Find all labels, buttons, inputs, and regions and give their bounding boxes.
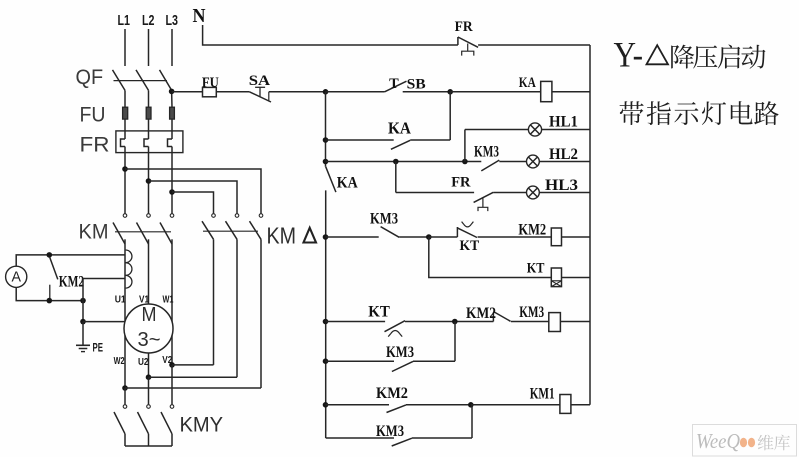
- thermal relay FR heater box: [80, 131, 183, 157]
- wire KT coil branch: [429, 237, 552, 278]
- neutral label N: [193, 5, 206, 27]
- wire rung6 left: [326, 404, 390, 406]
- node HL2 rung: [323, 159, 329, 165]
- wire L2 QF-fuse: [148, 90, 150, 107]
- wire PE drop: [82, 301, 84, 322]
- wire HL3 to rail: [539, 192, 590, 194]
- node CT tap: [80, 298, 86, 304]
- wire KM3 coil to rail: [560, 321, 590, 323]
- svg-text:W1: W1: [163, 294, 174, 306]
- wire KM-delta pole3 drop: [260, 239, 262, 388]
- wire node-KT contact: [429, 236, 458, 238]
- contact KM2 ammeter (NO): [50, 258, 84, 301]
- contactor coil KM2: [518, 222, 561, 246]
- svg-text:HL1: HL1: [549, 114, 578, 131]
- svg-text:KA: KA: [388, 119, 412, 138]
- wire HL1 to rail: [542, 129, 590, 131]
- svg-text:SB: SB: [407, 77, 426, 93]
- wire L2 incoming: [148, 29, 150, 66]
- terminal label V1: [139, 294, 149, 306]
- contact KM3 hold (NO): [386, 344, 414, 372]
- wire KT-KM2coil: [478, 236, 552, 238]
- wire L1 incoming: [124, 29, 126, 66]
- contactor KMY star contacts: [114, 405, 223, 446]
- svg-text:KT: KT: [527, 261, 545, 277]
- svg-text:KM2: KM2: [518, 222, 546, 239]
- right rail: [589, 45, 591, 405]
- left rail upper: [325, 92, 327, 167]
- svg-text:A: A: [12, 270, 22, 286]
- contact KT delayed NC rung4: [457, 222, 479, 254]
- wire L2 FR-KM: [148, 147, 150, 214]
- wire FR-HL3: [493, 192, 526, 194]
- wire KT coil to rail: [562, 277, 591, 279]
- wire rung4 left: [326, 236, 379, 238]
- svg-text:3~: 3~: [138, 329, 161, 351]
- svg-text:KM3: KM3: [376, 423, 404, 440]
- node rung4: [323, 234, 329, 240]
- lamp HL3: [527, 177, 579, 199]
- node V2 delta: [169, 362, 175, 368]
- wire neutral N run: [203, 25, 458, 45]
- contactor coil KM1: [530, 385, 571, 413]
- svg-text:KMY: KMY: [180, 414, 224, 437]
- wire L3 QF-fuse: [171, 90, 173, 107]
- lamp HL1: [528, 114, 578, 137]
- wire HL3 rung left: [396, 192, 474, 194]
- phase label L3: [166, 12, 179, 29]
- wire rung7 left: [326, 437, 394, 439]
- wire L3 FR-KM: [171, 147, 173, 214]
- svg-text:KA: KA: [519, 75, 536, 91]
- svg-text:HL2: HL2: [549, 146, 578, 163]
- svg-text:U2: U2: [138, 356, 149, 368]
- wire U2 to KMY: [148, 377, 150, 404]
- wire motor W2 lead: [124, 335, 126, 388]
- wire L1 FR-KM: [124, 147, 126, 214]
- wire rung7 riser: [471, 405, 473, 438]
- node L1 tap: [122, 166, 128, 172]
- svg-text:U1: U1: [115, 294, 126, 306]
- wire L1 QF-fuse: [124, 90, 126, 107]
- node QF output tap: [169, 89, 175, 95]
- svg-text:V1: V1: [139, 294, 149, 306]
- wire SB-node: [403, 91, 451, 93]
- wire tap to control fuse: [172, 91, 203, 93]
- fuse FU L2 (power): [146, 107, 151, 119]
- fuse FU (control): [202, 75, 219, 97]
- node KM1 rung: [468, 402, 474, 408]
- wire HL3 drop: [395, 162, 397, 193]
- wire KM-delta pole2 drop: [236, 239, 238, 377]
- wire FR to right rail: [478, 44, 590, 46]
- svg-text:W2: W2: [114, 355, 125, 367]
- wire node-KM1 coil: [471, 404, 560, 406]
- wire FU-SA: [216, 91, 249, 93]
- terminal label U2: [138, 356, 149, 368]
- wire delta V2 link: [172, 364, 214, 366]
- ground PE: [76, 341, 103, 355]
- wire KM3-node: [399, 236, 429, 238]
- wire KA hold rung: [326, 139, 394, 141]
- svg-text:L3: L3: [166, 12, 179, 29]
- wire KM-delta pole1 drop: [213, 239, 215, 365]
- wire L3 incoming: [171, 29, 173, 66]
- node W2 delta: [122, 385, 128, 391]
- wire L3 fuse-FR: [171, 119, 173, 139]
- node KM3 hold branch: [452, 319, 458, 325]
- relay coil KA: [519, 75, 552, 102]
- wire SA to left rail: [269, 91, 326, 93]
- node rung5: [323, 319, 329, 325]
- svg-text:FU: FU: [80, 104, 106, 127]
- phase label L2: [142, 12, 155, 29]
- node HL3 branch: [393, 159, 399, 165]
- svg-text:SA: SA: [249, 73, 270, 89]
- wire ammeter top rail: [16, 255, 125, 266]
- motor M 3~: [124, 304, 173, 353]
- svg-text:L1: L1: [118, 12, 131, 29]
- svg-text:L2: L2: [142, 12, 155, 29]
- terminal label W2: [114, 355, 125, 367]
- node HL1 branch: [462, 159, 468, 165]
- fuse FU L1 (power): [123, 107, 128, 119]
- wire KM3 hold left: [326, 360, 395, 362]
- svg-text:Y-: Y-: [614, 35, 644, 75]
- contact KM2 rung5 (NO): [466, 305, 511, 322]
- wire HL1 riser: [464, 130, 466, 162]
- node KA hold rung: [323, 137, 329, 143]
- contactor KM-delta contacts: [202, 214, 316, 249]
- wire KM3-HL2: [499, 161, 526, 163]
- node ammeter top: [47, 252, 53, 258]
- contact KA in rail (NO): [326, 167, 358, 192]
- wire KA hold riser: [449, 92, 451, 140]
- wire KM3 hold right: [413, 360, 455, 362]
- node SB output: [447, 89, 453, 95]
- FR heater element L3: [168, 139, 173, 147]
- svg-text:KA: KA: [337, 175, 358, 192]
- timer coil KT: [527, 261, 562, 287]
- contact KM3 lamp rung (NO): [474, 144, 499, 171]
- svg-text:HL3: HL3: [545, 177, 578, 194]
- wire to ground: [82, 322, 84, 345]
- wire W2 to KMY: [124, 388, 126, 404]
- wire KA coil to right rail: [552, 91, 590, 93]
- wire rung7 right: [412, 437, 472, 439]
- svg-text:FR: FR: [451, 175, 470, 191]
- wire CT bottom tap: [83, 279, 125, 301]
- wire KM2 coil to rail: [562, 236, 591, 238]
- node U2 delta: [146, 374, 152, 380]
- wire L2 fuse-FR: [148, 119, 150, 139]
- svg-text:WeeQ: WeeQ: [696, 429, 740, 453]
- wire KM pole2 to motor: [148, 239, 150, 304]
- node KT coil branch: [426, 234, 432, 240]
- lamp HL2: [527, 146, 579, 168]
- wire rail-SB: [326, 91, 385, 93]
- thermal contact FR HL3 (NC): [451, 175, 493, 212]
- svg-text:KM3: KM3: [370, 211, 398, 228]
- svg-text:KM1: KM1: [530, 385, 555, 402]
- phase label L1: [118, 12, 131, 29]
- svg-text:KT: KT: [368, 304, 390, 321]
- wire KM2-node rung6: [406, 404, 471, 406]
- title line 2 dai zhishideng dianlu: [620, 101, 779, 125]
- wire KM3 hold riser: [454, 322, 456, 362]
- node L3 tap: [169, 189, 175, 195]
- svg-text:FU: FU: [202, 75, 219, 91]
- terminal label W1: [163, 294, 174, 306]
- wire HL2 to rail: [539, 161, 590, 163]
- node rung6: [323, 402, 329, 408]
- svg-text:KM: KM: [267, 223, 297, 249]
- pushbutton SB (NO): [385, 76, 426, 93]
- contact KA hold (NO): [388, 119, 412, 150]
- svg-text:M: M: [142, 304, 157, 326]
- label FU (power fuses): [80, 104, 106, 127]
- svg-text:KM2: KM2: [376, 385, 408, 402]
- wire tap L3 to KM-delta pole1: [172, 192, 214, 213]
- wire delta W2 link: [125, 387, 261, 389]
- contactor coil KM3: [519, 304, 560, 332]
- wire KT-KM2 rung5: [405, 321, 493, 323]
- wire tap L1 to KM-delta pole3: [125, 169, 261, 213]
- contact KM2 rung6 (NO): [376, 385, 408, 413]
- wire ammeter bottom rail: [16, 287, 83, 300]
- switch SA: [249, 73, 271, 102]
- wire L1 fuse-FR: [124, 119, 126, 139]
- wire node-KA coil: [450, 91, 541, 93]
- node L2 tap: [146, 178, 152, 184]
- wire V2 to KMY: [171, 365, 173, 404]
- wire motor V2 lead: [171, 335, 173, 365]
- svg-text:FR: FR: [80, 134, 110, 157]
- svg-text:KM3: KM3: [474, 144, 499, 161]
- node PE junction: [80, 319, 86, 325]
- wire rung5 left: [326, 321, 386, 323]
- wire KM2-KM3coil: [511, 321, 549, 323]
- svg-text:N: N: [193, 5, 206, 27]
- watermark WeeQoo: [693, 425, 797, 457]
- svg-text:FR: FR: [455, 19, 473, 35]
- terminal label U1: [115, 294, 126, 306]
- wire KM pole3 to motor: [171, 239, 173, 322]
- svg-text:KM: KM: [79, 221, 109, 244]
- wire motor U2 lead: [148, 353, 150, 377]
- wire PE to motor: [83, 321, 125, 323]
- contact KT delayed NO rung5: [368, 304, 405, 337]
- svg-text:KT: KT: [460, 238, 480, 254]
- wire KM pole1 to motor: [124, 239, 126, 322]
- contactor KM main contacts: [79, 214, 174, 244]
- FR heater element L1: [121, 139, 126, 147]
- contact KM3 rung4 (NO): [370, 211, 399, 238]
- FR heater element L2: [144, 139, 149, 147]
- left rail lower: [325, 190, 327, 438]
- node left rail top: [323, 89, 329, 95]
- svg-text:PE: PE: [93, 341, 104, 355]
- wire delta U2 link: [149, 376, 238, 378]
- wire HL2 rung left: [326, 161, 482, 163]
- svg-text:KM2: KM2: [466, 305, 496, 322]
- wire HL1 rung: [465, 129, 529, 131]
- title line 1 Y-delta jiangya qidong: [614, 35, 766, 75]
- svg-text:KM3: KM3: [519, 304, 544, 321]
- contact KM3 rung7 (NO): [376, 423, 412, 446]
- fuse FU L3 (power): [170, 107, 175, 119]
- svg-text:KM2: KM2: [59, 273, 84, 290]
- wire KA hold right: [410, 139, 450, 141]
- node ammeter bottom KM2: [47, 298, 53, 304]
- svg-text:T: T: [389, 76, 399, 92]
- svg-text:KM3: KM3: [386, 344, 414, 361]
- wire tap L2 to KM-delta pole2: [149, 181, 238, 213]
- ammeter A: [6, 266, 27, 287]
- wire KM1 coil to rail: [571, 404, 590, 406]
- terminal label V2: [162, 354, 172, 366]
- svg-text:QF: QF: [76, 66, 104, 89]
- thermal contact FR top (NC): [455, 19, 479, 56]
- breaker QF: [76, 66, 172, 90]
- current transformer secondary: [126, 250, 132, 288]
- node KM3 hold rung: [323, 358, 329, 364]
